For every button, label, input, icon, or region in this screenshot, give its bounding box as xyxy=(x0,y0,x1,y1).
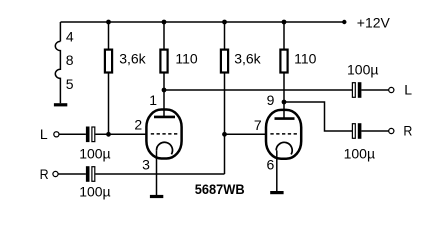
wire: R2 top lead xyxy=(163,22,165,49)
svg-text:+12V: +12V xyxy=(357,15,391,31)
node: rail junction R2 xyxy=(162,20,167,25)
svg-text:R: R xyxy=(40,166,49,182)
cathode arc tube 2 xyxy=(276,142,292,154)
resistor R2 110 xyxy=(160,50,167,73)
node: +12V terminal dot xyxy=(342,20,346,24)
anode plate bar tube 2 xyxy=(275,117,295,120)
svg-text:L: L xyxy=(404,82,412,98)
wire: cathode lead tube 1 xyxy=(156,150,158,195)
node: anode junction tube1 / L output xyxy=(162,88,167,93)
cathode arc tube 1 xyxy=(156,142,172,154)
svg-text:5: 5 xyxy=(66,76,74,92)
svg-text:1: 1 xyxy=(149,92,157,108)
ground (cathode tube 1) xyxy=(150,195,163,198)
wire: R3 top lead xyxy=(224,22,226,49)
capacitor C3 100u (output L) plate - xyxy=(352,83,355,98)
capacitor C4 100u (output R) plate - xyxy=(352,124,355,139)
node: rail junction R4 xyxy=(282,20,287,25)
terminal: output L xyxy=(389,87,394,92)
wire: R4 top lead xyxy=(283,22,285,49)
capacitor C3 plate + xyxy=(358,82,362,98)
wire: R2 bottom lead to plate of tube 1 xyxy=(163,74,165,117)
svg-text:R: R xyxy=(403,123,412,139)
ground (cathode tube 2) xyxy=(270,191,283,194)
svg-text:7: 7 xyxy=(254,117,262,133)
svg-text:L: L xyxy=(40,126,48,142)
wire: L input to C1 xyxy=(59,133,86,135)
capacitor C1 plate - xyxy=(92,127,95,142)
wire: R input to C2 xyxy=(58,173,86,175)
svg-text:5687WB: 5687WB xyxy=(195,181,245,197)
resistor R4 110 xyxy=(280,50,287,73)
triode tube V1 envelope xyxy=(146,110,181,159)
capacitor C2 plate - xyxy=(92,167,95,182)
svg-text:2: 2 xyxy=(134,117,142,133)
grid (dashed) tube 1 xyxy=(151,133,179,135)
wire: +12V power rail xyxy=(61,21,345,23)
wire: R4 bottom lead to plate of tube 2 xyxy=(283,74,285,118)
resistor R3 3,6k xyxy=(221,50,228,73)
wire: L output line from anode tube 1 xyxy=(164,89,352,91)
wire: C4 to R out terminal xyxy=(361,130,388,132)
svg-text:3,6k: 3,6k xyxy=(119,51,146,67)
heater winding L1 (pins 4,8,5) xyxy=(55,41,60,103)
svg-text:3: 3 xyxy=(142,156,150,172)
terminal: input L xyxy=(54,132,59,137)
capacitor C4 plate + xyxy=(358,123,362,139)
terminal: input R xyxy=(53,171,58,176)
wire: R1 bottom lead to L grid line xyxy=(108,74,110,135)
wire: R3 bottom lead to R grid node xyxy=(224,74,226,135)
svg-text:9: 9 xyxy=(267,92,275,108)
node: grid junction tube 2 xyxy=(222,132,227,137)
node: rail junction R1 xyxy=(106,20,111,25)
terminal: output R xyxy=(389,128,394,133)
svg-text:4: 4 xyxy=(66,28,74,44)
svg-text:3,6k: 3,6k xyxy=(234,51,261,67)
svg-text:100µ: 100µ xyxy=(79,146,110,162)
wire: R1 top lead xyxy=(108,22,110,49)
wire: cathode lead tube 2 xyxy=(276,150,278,191)
resistor R1 3,6k xyxy=(105,50,112,73)
node: junction R1 / L grid xyxy=(106,132,111,137)
wire: C1 to grid tube 1 xyxy=(95,133,145,135)
svg-text:6: 6 xyxy=(267,156,275,172)
triode tube V2 envelope xyxy=(266,110,301,159)
svg-text:110: 110 xyxy=(294,50,317,66)
anode plate bar tube 1 xyxy=(154,116,175,119)
grid (dashed) tube 2 xyxy=(270,133,298,135)
wire: C2 right to riser xyxy=(95,173,224,175)
wire: R output line from anode tube 2 (step) xyxy=(284,102,352,131)
wire: riser up to grid node tube 2 xyxy=(224,134,226,174)
svg-text:100µ: 100µ xyxy=(344,146,375,162)
capacitor C2 100u (input R) plate + xyxy=(86,166,90,182)
svg-text:8: 8 xyxy=(66,52,74,68)
svg-text:100µ: 100µ xyxy=(347,62,378,78)
svg-text:100µ: 100µ xyxy=(79,183,110,199)
ground (heater) xyxy=(54,103,67,106)
node: rail junction R3 xyxy=(222,20,227,25)
wire: grid node to grid tube 2 xyxy=(225,133,266,135)
wire: heater lead from rail xyxy=(59,22,61,41)
capacitor C1 100u (input L) plate + xyxy=(86,127,90,143)
svg-text:110: 110 xyxy=(175,50,198,66)
node: anode junction tube2 / R output xyxy=(282,100,287,105)
wire: C3 to L out terminal xyxy=(361,89,388,91)
